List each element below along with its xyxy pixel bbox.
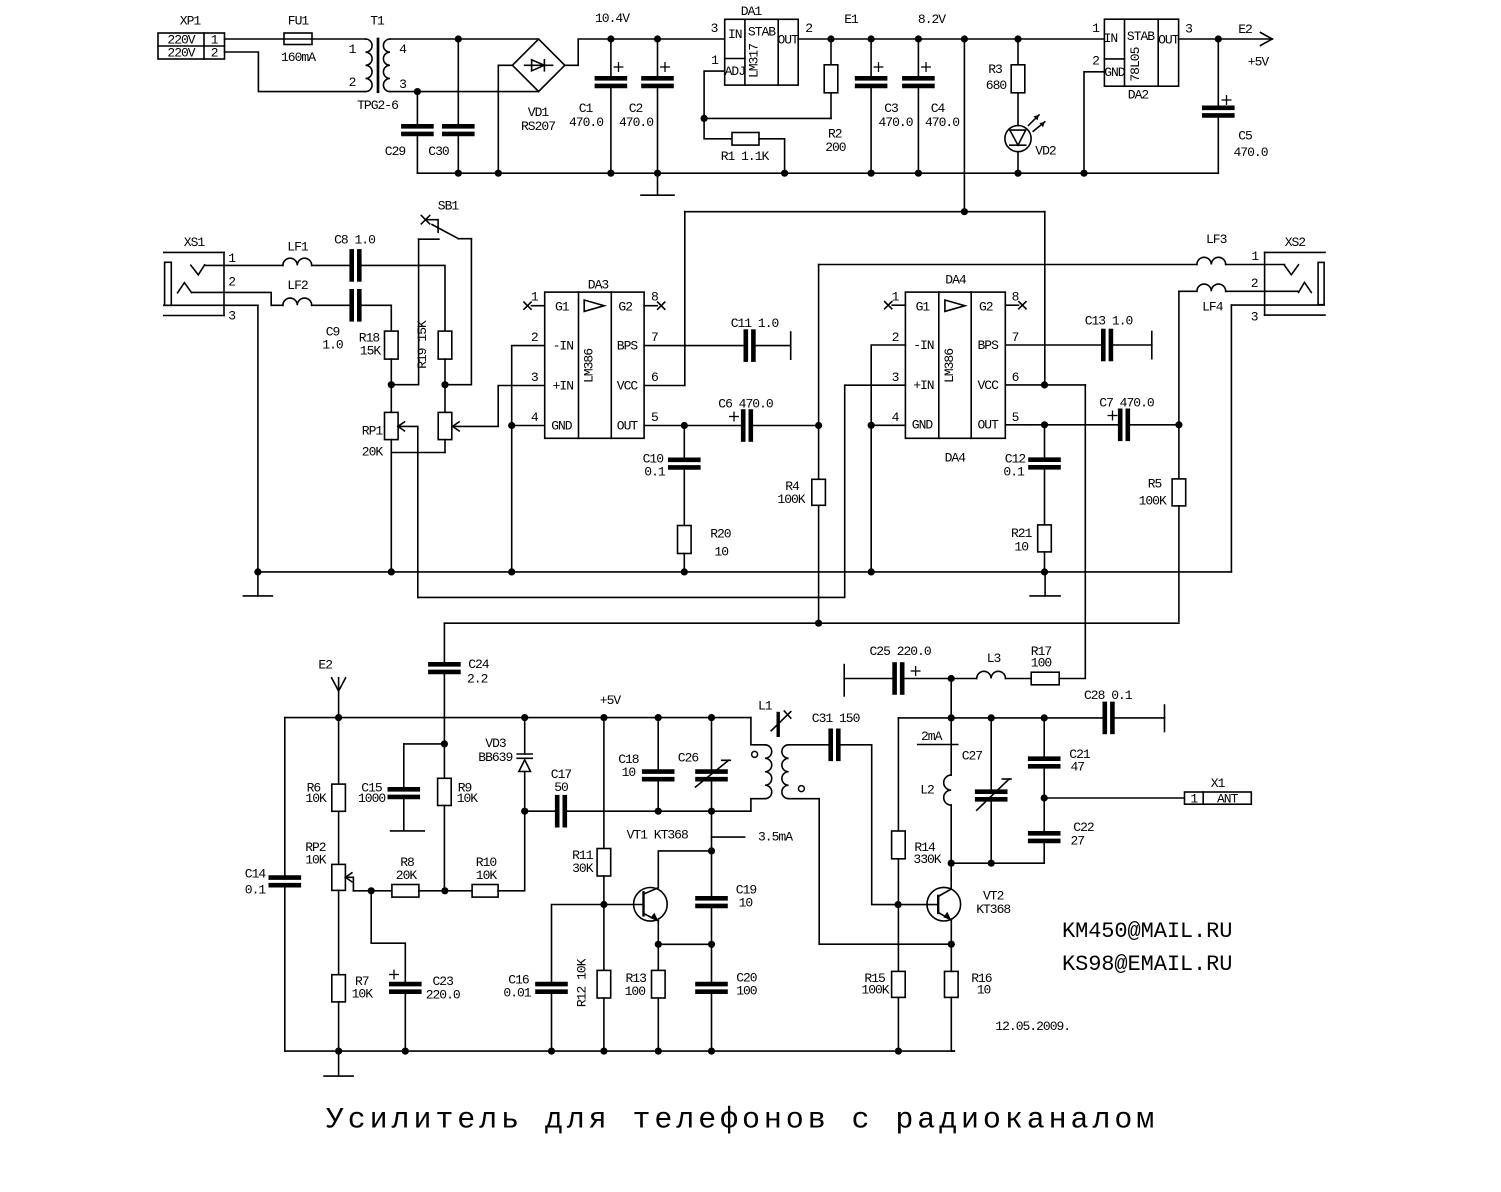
svg-text:4: 4	[399, 42, 407, 57]
connector X1 ANT	[1185, 776, 1252, 807]
svg-text:X1: X1	[1211, 776, 1226, 791]
wire DA4 -IN to ground	[871, 345, 905, 425]
svg-text:GND: GND	[551, 419, 573, 434]
wire tank line	[567, 810, 751, 812]
junction rail XS1	[254, 568, 261, 575]
svg-text:IN: IN	[1104, 31, 1118, 46]
capacitor C2 470.0	[619, 39, 672, 173]
wire LF2 to C9	[312, 304, 350, 306]
svg-text:4: 4	[531, 410, 539, 425]
capacitor C17 50	[525, 767, 572, 825]
wire XS1 pin2	[191, 292, 283, 305]
wire R4/R5 bus	[444, 622, 1179, 624]
svg-text:C6 470.0: C6 470.0	[718, 397, 773, 412]
capacitor C1 470.0	[569, 39, 625, 173]
amplifier DA4 LM386	[892, 273, 1019, 466]
capacitor C31 150	[812, 711, 872, 759]
capacitor C26 trimmer	[678, 718, 731, 812]
junction R18 bottom	[388, 381, 395, 388]
capacitor C25 220.0	[844, 644, 951, 696]
svg-text:2: 2	[211, 46, 218, 61]
junction C19 bottom	[708, 941, 715, 948]
wire DA4 +IN to RP1 wiper	[418, 385, 906, 597]
svg-text:220V: 220V	[167, 46, 195, 61]
svg-text:C13 1.0: C13 1.0	[1085, 314, 1133, 329]
svg-text:3: 3	[892, 370, 899, 385]
wire DA2 OUT / node E2	[1179, 22, 1273, 70]
svg-text:SB1: SB1	[438, 199, 460, 214]
potentiometer RP1 second gang	[438, 385, 545, 453]
svg-text:G1: G1	[916, 299, 931, 314]
svg-text:KT368: KT368	[976, 902, 1010, 917]
svg-text:2mA: 2mA	[921, 729, 943, 744]
svg-text:C24: C24	[468, 657, 490, 672]
svg-text:E1: E1	[844, 12, 859, 27]
svg-text:1.0: 1.0	[322, 338, 343, 353]
junction C21 top	[1041, 714, 1048, 721]
junction C27 top	[988, 714, 995, 721]
junction C30 top	[455, 35, 462, 42]
junction C26 rail	[708, 714, 715, 721]
ground below C2	[641, 173, 674, 195]
wire VT2 collector	[950, 863, 952, 889]
wire R10 to varicap node	[498, 811, 525, 891]
rail +5V	[285, 693, 751, 718]
svg-text:10: 10	[714, 544, 728, 559]
socket XS1	[164, 235, 236, 324]
junction bottom R15	[895, 1048, 902, 1055]
resistor R19 15K	[415, 320, 452, 385]
wire bias to C15	[404, 744, 445, 787]
svg-text:DA3: DA3	[588, 278, 609, 293]
svg-text:1: 1	[349, 42, 357, 57]
svg-text:STAB: STAB	[748, 25, 776, 40]
resistor R15 100K	[861, 905, 905, 1052]
svg-text:2: 2	[531, 330, 538, 345]
wire DA1 ADJ	[704, 71, 725, 118]
junction C1 top	[607, 35, 614, 42]
svg-text:VD1: VD1	[528, 105, 550, 120]
junction DA4 OUT	[1041, 421, 1048, 428]
junction rail R20	[681, 568, 688, 575]
capacitor C14 0.1	[245, 718, 299, 1052]
wire emitter to transformer	[819, 943, 951, 945]
svg-text:L1: L1	[758, 699, 773, 714]
svg-text:R20: R20	[710, 526, 731, 541]
capacitor C29	[385, 92, 432, 174]
capacitor C18 10	[618, 718, 672, 812]
junction rail C1	[607, 170, 614, 177]
connector XP1	[158, 14, 225, 61]
svg-text:G1: G1	[555, 299, 570, 314]
resistor R5 100K	[1139, 425, 1186, 622]
svg-text:OUT: OUT	[1158, 33, 1180, 48]
wire E1 to DA4 VCC	[1044, 212, 1046, 385]
wire DA3 OUT	[644, 425, 741, 427]
junction R2 top	[827, 35, 834, 42]
wire RP2 wiper to R8	[353, 890, 392, 892]
svg-text:TPG2-6: TPG2-6	[357, 98, 398, 113]
wire DA4 out junction	[1031, 424, 1118, 426]
socket XS2	[1251, 235, 1325, 325]
svg-text:-IN: -IN	[553, 339, 574, 354]
svg-text:10: 10	[977, 982, 991, 997]
junction varicap bias node	[441, 740, 448, 747]
junction antenna tap	[1041, 794, 1048, 801]
wire XS2 right channel feed	[1179, 291, 1197, 425]
svg-text:1: 1	[1251, 249, 1259, 264]
capacitor C6 470.0	[718, 397, 773, 440]
svg-text:10.4V: 10.4V	[595, 11, 630, 26]
capacitor C12 0.1	[1003, 425, 1058, 525]
svg-text:100: 100	[625, 984, 646, 999]
text email 1	[1062, 919, 1232, 944]
capacitor C8 1.0	[334, 233, 375, 280]
svg-text:LM386: LM386	[582, 349, 597, 383]
svg-text:10: 10	[739, 896, 753, 911]
bridge rectifier VD1 RS207	[512, 39, 564, 134]
wire LF4 to XS2	[1226, 290, 1299, 292]
svg-text:C28 0.1: C28 0.1	[1084, 688, 1133, 703]
capacitor C3 470.0	[857, 39, 913, 173]
svg-text:2: 2	[892, 330, 899, 345]
svg-text:C7 470.0: C7 470.0	[1099, 396, 1154, 411]
svg-text:0.1: 0.1	[245, 883, 267, 898]
capacitor C11 1.0	[731, 316, 791, 360]
text date	[995, 1019, 1070, 1034]
capacitor C10 0.1	[643, 426, 699, 526]
svg-text:27: 27	[1070, 833, 1084, 848]
svg-text:1: 1	[892, 290, 900, 305]
inductor L3	[951, 651, 1005, 679]
wire E1 distribution	[685, 211, 1045, 213]
svg-text:10K: 10K	[352, 986, 374, 1001]
oscillator transformer secondary	[752, 745, 829, 944]
svg-text:2.2: 2.2	[467, 671, 488, 686]
transformer T1 TPG2-6	[349, 14, 408, 114]
svg-text:1: 1	[1092, 21, 1100, 36]
wire C31 to VT2 base	[872, 745, 898, 905]
svg-text:VD3: VD3	[485, 736, 506, 751]
junction C4 top	[915, 35, 922, 42]
svg-text:E2: E2	[1238, 22, 1252, 37]
svg-text:OUT: OUT	[977, 418, 999, 433]
junction rail R1	[781, 170, 788, 177]
junction DA4 GND	[868, 422, 875, 429]
wire bridge output to DA1	[565, 39, 725, 65]
junction bottom R7	[335, 1048, 342, 1055]
svg-text:+IN: +IN	[553, 379, 574, 394]
svg-text:0.01: 0.01	[503, 986, 531, 1001]
capacitor C27 trimmer	[962, 718, 1011, 863]
junction R3 top	[1014, 35, 1021, 42]
wire T1 pin3 to bridge	[390, 91, 539, 93]
capacitor C4 470.0	[904, 39, 959, 173]
svg-text:2: 2	[1092, 54, 1099, 69]
svg-text:470.0: 470.0	[619, 115, 653, 130]
capacitor C28 0.1	[1044, 688, 1164, 732]
svg-text:1: 1	[531, 290, 539, 305]
junction C29 top	[414, 88, 421, 95]
capacitor C24 2.2	[430, 623, 489, 744]
svg-text:C30: C30	[428, 144, 449, 159]
svg-text:10: 10	[1014, 539, 1028, 554]
svg-text:7: 7	[1012, 330, 1019, 345]
resistor R13 100	[625, 944, 666, 1051]
svg-text:2: 2	[1251, 276, 1258, 291]
junction collector tap	[708, 847, 715, 854]
wire DA4 BPS to C13	[1005, 344, 1101, 346]
svg-text:VCC: VCC	[977, 378, 999, 393]
wire tank to collector node	[711, 811, 713, 851]
svg-text:C14: C14	[245, 867, 267, 882]
svg-text:Усилитель для телефонов с ради: Усилитель для телефонов с радиоканалом	[326, 1104, 1158, 1138]
ground below C15	[391, 830, 425, 832]
svg-text:5: 5	[651, 410, 658, 425]
wire L2 tank top	[898, 717, 1044, 719]
wire XS1 pin1	[205, 264, 283, 266]
node 10.4V	[595, 11, 630, 26]
capacitor C20 100	[698, 944, 757, 1051]
svg-text:C2: C2	[629, 101, 643, 116]
pin DA4 G2 open	[1005, 302, 1026, 309]
junction rail DA3 GND	[508, 568, 515, 575]
junction bottom R12	[600, 1048, 607, 1055]
text email 2	[1062, 952, 1232, 977]
node E1	[844, 12, 859, 27]
svg-text:BB639: BB639	[478, 750, 512, 765]
svg-text:20K: 20K	[362, 445, 384, 460]
svg-text:+IN: +IN	[913, 378, 934, 393]
svg-text:10K: 10K	[457, 791, 479, 806]
svg-text:-IN: -IN	[913, 338, 934, 353]
junction E1 drop	[961, 208, 968, 215]
wire FU1 to T1	[312, 38, 366, 40]
ground rail middle section	[258, 571, 1232, 573]
wire DA2 GND	[1084, 72, 1104, 173]
svg-text:OUT: OUT	[777, 33, 799, 48]
bottom rail	[285, 1050, 955, 1052]
junction R4 top	[815, 422, 822, 429]
svg-text:10K: 10K	[305, 791, 327, 806]
svg-text:LF3: LF3	[1206, 232, 1227, 247]
resistor R21 10	[1011, 525, 1051, 572]
svg-text:10: 10	[622, 765, 636, 780]
svg-text:20K: 20K	[396, 868, 418, 883]
svg-text:KM450@MAIL.RU: KM450@MAIL.RU	[1062, 919, 1232, 944]
pin DA3 G1 open	[524, 302, 545, 309]
svg-text:RS207: RS207	[521, 119, 555, 134]
junction varicap tank	[521, 808, 528, 815]
junction bottom C23	[402, 1048, 409, 1055]
svg-text:0.1: 0.1	[1003, 465, 1025, 480]
regulator DA1 LM317	[711, 4, 813, 85]
pin DA3 G2 open	[644, 302, 665, 309]
svg-text:L2: L2	[920, 783, 934, 798]
junction C18 rail	[655, 714, 662, 721]
regulator DA2 78L05	[1092, 19, 1192, 102]
svg-text:C4: C4	[931, 101, 946, 116]
svg-text:470.0: 470.0	[569, 115, 603, 130]
wire VT1 emitter	[657, 921, 659, 944]
wire C9 to R18	[362, 305, 392, 331]
svg-text:FU1: FU1	[288, 14, 310, 29]
svg-text:E2: E2	[318, 658, 332, 673]
transistor VT1 KT368	[604, 827, 688, 921]
junction tank bottom L2	[948, 860, 955, 867]
junction bottom R13	[655, 1048, 662, 1055]
pin DA4 G1 open	[885, 302, 906, 309]
junction C26 tank	[708, 808, 715, 815]
node 8.2V	[918, 12, 946, 27]
svg-text:15K: 15K	[360, 343, 382, 358]
svg-text:C5: C5	[1238, 129, 1252, 144]
resistor R2 200	[824, 39, 846, 155]
junction C23 tap	[368, 887, 375, 894]
capacitor C21 47	[1030, 718, 1091, 798]
svg-text:1000: 1000	[358, 791, 385, 806]
wire bridge left vertex to ground rail	[498, 65, 512, 173]
junction rail R21	[1041, 568, 1048, 575]
junction L2 top	[948, 714, 955, 721]
svg-text:100K: 100K	[777, 492, 805, 507]
resistor R6 10K	[305, 718, 345, 865]
svg-text:KS98@EMAIL.RU: KS98@EMAIL.RU	[1062, 952, 1232, 977]
potentiometer RP1 20K	[362, 385, 445, 598]
wire LF1 to C8	[312, 264, 350, 266]
svg-text:RP1: RP1	[362, 424, 384, 439]
svg-text:2: 2	[349, 75, 356, 90]
ground below rail left	[243, 572, 272, 596]
svg-text:3.5mA: 3.5mA	[758, 830, 793, 845]
wire C8 to R19	[362, 265, 445, 331]
svg-text:78L05: 78L05	[1128, 47, 1143, 81]
resistor R17 100	[1006, 385, 1086, 685]
svg-text:LM386: LM386	[942, 349, 957, 383]
wire XS1 pin3 to ground	[164, 305, 258, 572]
current label 3.5mA	[712, 830, 794, 845]
svg-text:C26: C26	[678, 751, 699, 766]
svg-text:OUT: OUT	[617, 419, 639, 434]
svg-text:3: 3	[399, 77, 406, 92]
svg-text:R5: R5	[1148, 477, 1162, 492]
fuse FU1 160mA	[281, 14, 316, 66]
svg-text:330K: 330K	[913, 852, 941, 867]
wire R8 to R10	[419, 890, 472, 892]
resistor R10 10K	[472, 855, 498, 897]
svg-text:LF4: LF4	[1202, 299, 1224, 314]
resistor R14 330K	[892, 718, 942, 905]
resistor R16 10	[945, 944, 992, 1051]
resistor R4 100K	[777, 426, 825, 624]
svg-text:T1: T1	[370, 14, 385, 29]
svg-text:VT1 KT368: VT1 KT368	[627, 827, 688, 842]
svg-text:100K: 100K	[861, 982, 889, 997]
junction VT2 base	[895, 901, 902, 908]
svg-text:3: 3	[711, 21, 718, 36]
junction C25 node	[948, 675, 955, 682]
wire VT2 emitter	[950, 920, 952, 944]
svg-text:2: 2	[805, 21, 812, 36]
switch SB1	[391, 199, 471, 385]
wire E1 to amplifiers	[963, 39, 965, 212]
svg-text:XS1: XS1	[184, 235, 206, 250]
inductor L1 with core	[751, 699, 791, 812]
svg-text:0.1: 0.1	[644, 465, 666, 480]
svg-text:G2: G2	[979, 299, 993, 314]
junction rail C3	[868, 170, 875, 177]
capacitor C23 220.0	[371, 891, 460, 1051]
junction VT1 emitter	[655, 941, 662, 948]
varicap VD3 BB639	[478, 718, 532, 812]
svg-text:200: 200	[825, 140, 846, 155]
junction E1 tap	[961, 35, 968, 42]
junction VT2 emitter	[948, 941, 955, 948]
svg-text:R1 1.1K: R1 1.1K	[721, 149, 770, 164]
capacitor C22 27	[1030, 798, 1094, 863]
wire DA3 -IN to GND	[512, 346, 545, 426]
svg-text:3: 3	[1251, 310, 1258, 325]
wire DA1 OUT rail	[798, 38, 1104, 40]
junction E2 rail	[335, 714, 342, 721]
svg-text:C29: C29	[385, 144, 406, 159]
svg-text:220.0: 220.0	[426, 988, 460, 1003]
capacitor C19 10	[698, 851, 757, 944]
junction rail C2	[654, 170, 661, 177]
svg-text:C25 220.0: C25 220.0	[869, 644, 930, 659]
svg-text:LF1: LF1	[287, 240, 309, 255]
junction rail C4	[915, 170, 922, 177]
current label 2mA	[918, 729, 958, 744]
svg-text:BPS: BPS	[977, 338, 999, 353]
svg-text:5: 5	[1012, 410, 1019, 425]
svg-text:DA4: DA4	[945, 273, 967, 288]
junction R19 bottom	[441, 381, 448, 388]
wire tank bottom	[951, 862, 1044, 864]
junction C18 tank	[655, 808, 662, 815]
wire DA4 GND	[871, 425, 905, 572]
capacitor C13 1.0	[1085, 314, 1152, 360]
svg-text:DA2: DA2	[1128, 87, 1149, 102]
wire XS2 pin3 to ground	[1231, 305, 1324, 572]
junction C5 top	[1215, 35, 1222, 42]
svg-text:10K: 10K	[305, 852, 327, 867]
svg-text:50: 50	[554, 780, 568, 795]
svg-text:100: 100	[736, 984, 757, 999]
wire collector supply	[950, 679, 952, 718]
svg-text:R19 15K: R19 15K	[415, 320, 430, 369]
svg-text:XS2: XS2	[1285, 235, 1306, 250]
inductor LF2	[283, 278, 312, 305]
resistor R11 30K	[572, 718, 611, 905]
svg-text:DA1: DA1	[741, 4, 763, 19]
wire emitter to C19	[658, 943, 711, 945]
svg-text:30K: 30K	[572, 861, 594, 876]
svg-text:G2: G2	[618, 299, 632, 314]
junction C2 top	[654, 35, 661, 42]
svg-text:GND: GND	[1104, 65, 1126, 80]
resistor R7 10K	[332, 974, 373, 1051]
svg-text:VCC: VCC	[617, 379, 639, 394]
wire ADJ to R2	[704, 117, 831, 119]
inductor LF4	[1197, 284, 1226, 314]
svg-text:10K: 10K	[476, 868, 498, 883]
junction rail RP1	[388, 568, 395, 575]
ground below bottom rail	[324, 1051, 353, 1076]
svg-text:12.05.2009.: 12.05.2009.	[995, 1019, 1070, 1034]
LED VD2	[1005, 115, 1056, 173]
ground rail top section	[417, 172, 1218, 174]
